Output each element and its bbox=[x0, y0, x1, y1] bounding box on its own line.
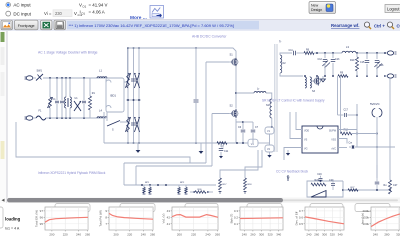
svg-text:S1: S1 bbox=[230, 53, 234, 57]
toolbar button: excel export bbox=[41, 20, 53, 30]
wire: bridge to top rail bbox=[124, 48, 128, 82]
toolbar button: save bbox=[54, 20, 66, 30]
svg-text:Io1 = 4 A: Io1 = 4 A bbox=[5, 227, 20, 231]
wire: HV+ top rail bbox=[128, 48, 237, 57]
svg-text:260: 260 bbox=[150, 232, 155, 236]
capacitor C20 bbox=[329, 179, 335, 190]
svg-text:S2: S2 bbox=[230, 104, 234, 108]
junction dots bottom rail doubler bbox=[127, 142, 197, 144]
capacitor C2 bbox=[60, 78, 64, 118]
selector switch S bbox=[107, 112, 128, 132]
waveform plot 1: Total Eff. (%) bbox=[35, 207, 91, 236]
svg-text:VG: VG bbox=[304, 148, 308, 151]
svg-text:R24: R24 bbox=[315, 179, 320, 182]
wire: load bottom bbox=[371, 189, 391, 191]
svg-text:0.6: 0.6 bbox=[299, 215, 304, 219]
svg-text:240: 240 bbox=[76, 232, 81, 236]
svg-text:220: 220 bbox=[63, 232, 68, 236]
svg-text:0.3: 0.3 bbox=[234, 209, 239, 213]
NTC RT1 upper bbox=[134, 73, 139, 88]
wire: bridge left down bbox=[103, 112, 105, 143]
zoom in control bbox=[364, 22, 385, 29]
waveform plot 4: Bpk (T) bbox=[230, 207, 284, 236]
svg-text:Logout: Logout bbox=[387, 6, 400, 11]
svg-text:Total Eff. (%): Total Eff. (%) bbox=[35, 210, 39, 227]
zener TV bbox=[287, 175, 290, 181]
svg-text:96: 96 bbox=[40, 215, 44, 219]
svg-text:42: 42 bbox=[167, 215, 171, 219]
svg-text:nVC: nVC bbox=[331, 148, 336, 151]
svg-text:R12: R12 bbox=[344, 129, 349, 132]
bulk capacitor C5 bbox=[194, 48, 199, 143]
series capacitor C11 bbox=[289, 49, 305, 55]
junction dots sec bbox=[304, 52, 386, 77]
svg-text:Ctrl: Ctrl bbox=[397, 23, 400, 28]
breaker SW1 bbox=[36, 70, 43, 81]
SR controller U2 bbox=[302, 126, 338, 153]
svg-text:240: 240 bbox=[205, 232, 210, 236]
probe arrow B bbox=[136, 143, 141, 153]
node dots supply bbox=[352, 114, 378, 148]
sec winding N3 bbox=[305, 76, 311, 88]
svg-text:220: 220 bbox=[191, 232, 196, 236]
resistor R1 bbox=[89, 78, 96, 118]
svg-text:Ctrl +: Ctrl + bbox=[374, 23, 385, 28]
capacitor C18 bbox=[349, 142, 396, 150]
varistor RV3 lower bbox=[125, 117, 130, 132]
svg-text:320: 320 bbox=[396, 232, 400, 236]
left gutter panel bbox=[0, 31, 7, 203]
waveform plot 6: fsw (Hz) bbox=[361, 207, 400, 236]
capacitor C15 bbox=[360, 53, 369, 76]
svg-text:200: 200 bbox=[113, 232, 118, 236]
svg-text:V: V bbox=[74, 11, 77, 16]
svg-text:VDD: VDD bbox=[304, 130, 309, 133]
readout IO1 bbox=[80, 10, 105, 16]
secondary ground bbox=[321, 76, 326, 82]
wire: sense feeds bbox=[220, 150, 262, 178]
section label: AC 1 stage Voltage Doubler with Bridge bbox=[38, 51, 98, 55]
svg-text:97: 97 bbox=[40, 209, 44, 213]
section label: AHB DC/DC Converter bbox=[192, 35, 227, 39]
junction dots AC rails bbox=[49, 77, 85, 119]
NTC RT2 lower bbox=[134, 117, 139, 132]
capacitor C11s bbox=[219, 143, 229, 158]
fuse F1 bbox=[36, 110, 46, 121]
svg-text:*** 1) Infineon 170W 230Vac 16: *** 1) Infineon 170W 230Vac 16-42V REF_X… bbox=[69, 23, 234, 28]
readout VO1 bbox=[79, 2, 107, 8]
capacitor C3 upper bulk bbox=[131, 79, 136, 81]
resistor R7 bbox=[217, 142, 227, 149]
AC plug J1 bbox=[25, 76, 37, 80]
wire: bundle verticals bbox=[124, 163, 136, 185]
common-mode choke L2 bbox=[65, 78, 72, 118]
svg-text:240: 240 bbox=[306, 232, 311, 236]
toolbar button: picture bbox=[1, 20, 13, 30]
svg-text:AC input: AC input bbox=[13, 3, 31, 8]
svg-text:VS: VS bbox=[304, 139, 308, 142]
waveform plot 5: Dev. of Eff bbox=[295, 207, 345, 236]
svg-text:0.1: 0.1 bbox=[234, 222, 239, 226]
svg-text:340: 340 bbox=[338, 232, 343, 236]
Logout button bbox=[385, 5, 400, 13]
svg-text:Vo1 (V): Vo1 (V) bbox=[162, 213, 166, 223]
svg-text:Total Pd (W): Total Pd (W) bbox=[99, 210, 103, 227]
wire: Cr branch bbox=[236, 121, 253, 125]
svg-text:Tr: Tr bbox=[279, 40, 281, 44]
capacitor C6 bbox=[238, 125, 245, 143]
toolbar button: Frontpage bbox=[15, 20, 39, 30]
New Design button bbox=[309, 2, 336, 14]
svg-text:Dev. of Eff: Dev. of Eff bbox=[295, 211, 299, 225]
wire: doubler vertical 1 bbox=[127, 48, 129, 143]
svg-text:Rearrange wf.: Rearrange wf. bbox=[331, 23, 359, 28]
radio button: DC input bbox=[6, 11, 32, 16]
wire: bundle 2 bbox=[136, 165, 212, 167]
capacitor C12e bbox=[318, 53, 331, 76]
capacitor C1 bbox=[53, 78, 60, 118]
wire: bundle bottom bbox=[124, 184, 216, 186]
mosfet S1 bbox=[230, 53, 239, 67]
svg-text:260: 260 bbox=[250, 232, 255, 236]
More link bbox=[130, 15, 147, 21]
svg-text:fsw (Hz): fsw (Hz) bbox=[361, 213, 365, 224]
svg-text:240: 240 bbox=[242, 232, 247, 236]
ground arrow primary bbox=[267, 155, 271, 158]
sense box V1 bbox=[265, 127, 274, 145]
output inductor L3 bbox=[342, 45, 387, 53]
source 5V0/VC bbox=[370, 102, 382, 178]
primary winding N1 bbox=[266, 99, 273, 128]
wire: S1 to switch node bbox=[235, 67, 237, 109]
section label: SR MOSFET Control IC with forward Supply bbox=[262, 99, 325, 103]
svg-text:200: 200 bbox=[177, 232, 182, 236]
svg-text:= 41.94 V: = 41.94 V bbox=[89, 2, 108, 7]
capacitor C16 bbox=[374, 53, 384, 76]
wire: top AC rail bbox=[43, 77, 106, 79]
junction dots top rail bbox=[127, 47, 197, 49]
wire: doubler vertical 2 bbox=[133, 48, 135, 143]
svg-text:C16: C16 bbox=[379, 64, 384, 67]
inductor L4 bbox=[97, 109, 107, 119]
svg-text:0.2: 0.2 bbox=[234, 215, 239, 219]
wire: long return bbox=[16, 122, 190, 163]
resistor pair RP2 bbox=[178, 182, 188, 194]
resistor R18 bbox=[244, 178, 253, 193]
junction dots sec top bbox=[316, 52, 334, 54]
horizontal scrollbar bbox=[2, 198, 400, 204]
svg-text:Bpk (T): Bpk (T) bbox=[230, 214, 234, 224]
svg-text:AC 1 stage Voltage Doubler wit: AC 1 stage Voltage Doubler with Bridge bbox=[38, 51, 98, 55]
SR mosfet S3 bbox=[312, 76, 320, 93]
svg-text:Cw: Cw bbox=[349, 142, 353, 145]
section label: CC CV feedback block bbox=[276, 170, 308, 174]
output terminal minus bbox=[385, 74, 397, 78]
svg-text:SW1: SW1 bbox=[37, 70, 43, 73]
output terminal plus bbox=[387, 51, 396, 55]
svg-text:C15: C15 bbox=[360, 61, 365, 64]
svg-text:DC input: DC input bbox=[13, 11, 31, 16]
mosfet S2 bbox=[230, 104, 239, 119]
svg-text:C12: C12 bbox=[318, 58, 323, 61]
svg-text:VSS: VSS bbox=[331, 139, 336, 142]
svg-text:O1: O1 bbox=[81, 12, 85, 16]
wire: aux verticals bbox=[338, 76, 341, 134]
varistor RV2 upper bbox=[125, 73, 130, 88]
capacitor C7 bbox=[251, 125, 259, 143]
sense box V2 bbox=[265, 145, 274, 155]
svg-text:5V0/VC: 5V0/VC bbox=[370, 102, 380, 106]
toolbar band bbox=[0, 20, 400, 32]
svg-text:240: 240 bbox=[373, 232, 378, 236]
svg-text:200k: 200k bbox=[362, 209, 369, 213]
junction dots near Cr bbox=[221, 142, 244, 144]
resistor R17 bbox=[219, 178, 228, 193]
capacitor C13e bbox=[331, 53, 340, 76]
svg-text:C11: C11 bbox=[224, 150, 229, 153]
waveform plot 2: Total Pd (W) bbox=[99, 207, 156, 236]
svg-text:C13: C13 bbox=[335, 58, 340, 61]
feedback loop box bbox=[307, 180, 343, 197]
Rearrange wf link bbox=[331, 23, 359, 28]
partially hidden waveform buttons bbox=[0, 204, 390, 228]
varistor RV1 bbox=[47, 78, 52, 118]
svg-text:Vi =: Vi = bbox=[44, 11, 52, 16]
svg-text:C27: C27 bbox=[393, 184, 398, 187]
load cap C27 bbox=[375, 165, 398, 190]
resistor R9 bbox=[338, 72, 348, 78]
svg-text:200: 200 bbox=[49, 232, 54, 236]
svg-text:Frontpage: Frontpage bbox=[18, 24, 35, 28]
svg-text:C19: C19 bbox=[317, 173, 322, 176]
load resistor Ro bbox=[384, 79, 392, 194]
discharge IC U1 bbox=[74, 97, 81, 111]
loading label bbox=[5, 217, 21, 231]
svg-text:340: 340 bbox=[276, 232, 281, 236]
wires: U2 right pins bbox=[338, 130, 357, 148]
svg-text:CC CV feedback block: CC CV feedback block bbox=[276, 170, 308, 174]
wire: supply vertical bbox=[356, 104, 358, 147]
svg-text:0.7: 0.7 bbox=[299, 209, 304, 213]
resistor pair RP1 bbox=[143, 182, 152, 194]
design title selected bbox=[67, 21, 259, 30]
svg-text:95: 95 bbox=[40, 222, 44, 226]
svg-text:loading: loading bbox=[5, 217, 21, 222]
svg-text:260: 260 bbox=[85, 232, 90, 236]
capacitor C19 bbox=[317, 173, 322, 180]
svg-text:AHB DC/DC Converter: AHB DC/DC Converter bbox=[192, 35, 227, 39]
svg-text:300: 300 bbox=[322, 232, 327, 236]
radio button: AC input (selected) bbox=[6, 3, 32, 8]
svg-text:= 4.06 A: = 4.06 A bbox=[89, 10, 105, 15]
wires: U2 left pins bbox=[284, 112, 302, 160]
zoom out control bbox=[387, 22, 400, 29]
svg-text:260: 260 bbox=[314, 232, 319, 236]
capacitor C4 lower bulk bbox=[131, 123, 136, 125]
resistor R12 bbox=[341, 129, 378, 135]
svg-text:240: 240 bbox=[141, 232, 146, 236]
svg-text:41: 41 bbox=[167, 222, 171, 226]
svg-text:320: 320 bbox=[268, 232, 273, 236]
svg-text:Infineon XDPS2221 Hybrid Flyba: Infineon XDPS2221 Hybrid Flyback PWM Blo… bbox=[38, 171, 106, 175]
wire: bundle 1 bbox=[124, 162, 206, 164]
svg-text:Design: Design bbox=[311, 8, 322, 12]
gate drive wires bbox=[206, 62, 230, 166]
bundle dots bbox=[141, 184, 167, 186]
svg-text:43: 43 bbox=[167, 209, 171, 213]
svg-text:O1: O1 bbox=[82, 4, 86, 8]
wire: doubler vertical 3 bbox=[138, 48, 140, 143]
resistor R10 bbox=[350, 53, 359, 76]
svg-text:0.5: 0.5 bbox=[299, 222, 304, 226]
transformer core bbox=[275, 40, 282, 153]
svg-text:C17: C17 bbox=[344, 109, 349, 112]
wire: bottom AC rail bbox=[46, 117, 106, 119]
section label: Infineon XDPS2221 Hybrid Flyback PWM Block bbox=[38, 171, 106, 175]
secondary winding N2 bbox=[280, 53, 303, 76]
mid node wire bbox=[126, 99, 141, 101]
wire: HV- bottom rail bbox=[104, 142, 248, 144]
TL431 U3 bbox=[311, 191, 326, 198]
svg-text:Lr: Lr bbox=[257, 87, 259, 91]
feedback arrow bbox=[286, 150, 290, 156]
AC plug J2 bbox=[25, 116, 37, 120]
capacitor C17 bbox=[338, 109, 358, 118]
svg-text:320: 320 bbox=[330, 232, 335, 236]
Vi input field bbox=[44, 10, 83, 17]
svg-text:300: 300 bbox=[259, 232, 264, 236]
inductor L1 bbox=[97, 69, 107, 79]
probe arrow A bbox=[199, 143, 204, 154]
svg-text:C11: C11 bbox=[289, 49, 294, 52]
svg-text:New: New bbox=[311, 3, 319, 7]
svg-text:230: 230 bbox=[55, 11, 63, 16]
switch node dot bbox=[235, 92, 237, 94]
svg-text:BD1: BD1 bbox=[111, 94, 117, 98]
wire: fb out bbox=[342, 187, 371, 191]
svg-text:SUPW: SUPW bbox=[329, 130, 337, 133]
bridge rectifier BD1 bbox=[106, 78, 124, 112]
waveform plot 3: Vo1 (V) bbox=[162, 207, 221, 236]
waveform mail icon bbox=[150, 6, 164, 19]
sense box V4 bbox=[248, 139, 270, 147]
capacitor C3x bbox=[82, 78, 86, 118]
svg-text:R10: R10 bbox=[350, 59, 355, 62]
svg-text:220: 220 bbox=[127, 232, 132, 236]
resonant inductor Lr bbox=[236, 87, 272, 100]
resistor R6s bbox=[304, 49, 342, 55]
wire: S2 to rail bbox=[235, 119, 237, 144]
resistor R30 bbox=[190, 189, 213, 194]
resistor R24 bbox=[311, 179, 326, 186]
svg-text:280: 280 bbox=[384, 232, 389, 236]
svg-text:260: 260 bbox=[215, 232, 220, 236]
